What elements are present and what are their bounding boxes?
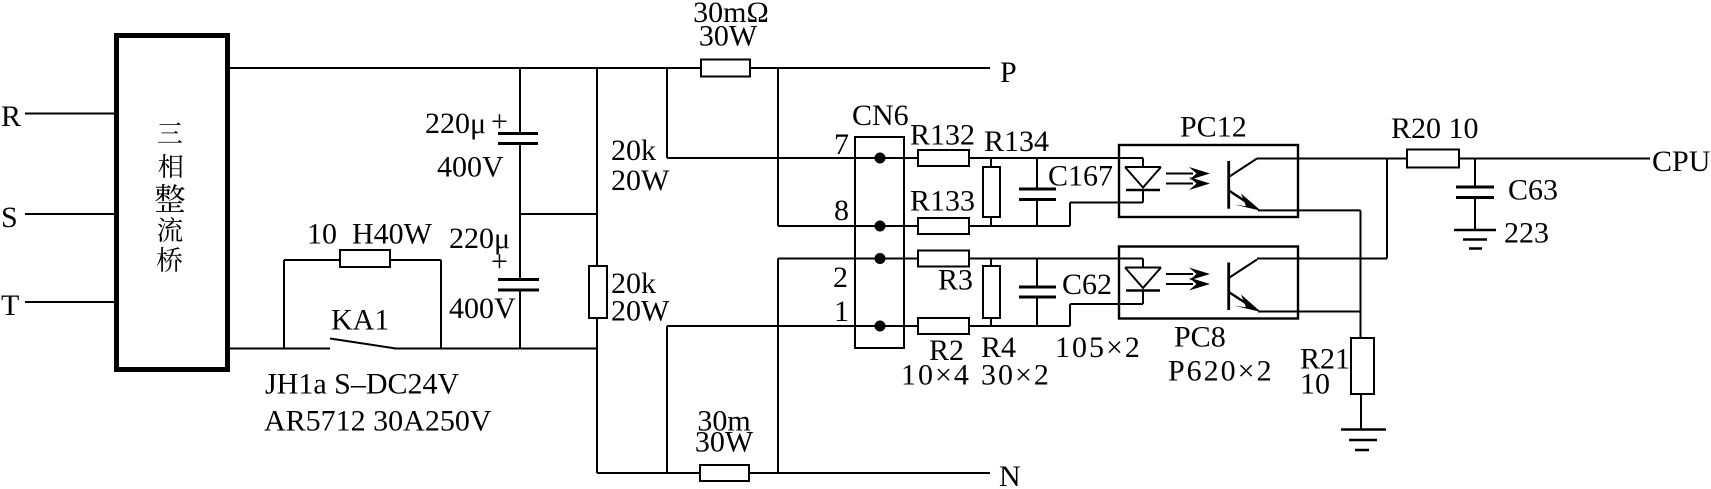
- svg-text:CN6: CN6: [852, 99, 909, 132]
- svg-text:P620×2: P620×2: [1168, 355, 1274, 388]
- svg-text:R3: R3: [938, 264, 973, 297]
- svg-text:8: 8: [834, 194, 849, 227]
- svg-text:R20 10: R20 10: [1391, 112, 1479, 145]
- svg-text:CPU: CPU: [1652, 145, 1711, 178]
- svg-text:C167: C167: [1048, 160, 1113, 193]
- svg-text:10: 10: [1300, 368, 1330, 401]
- svg-text:+: +: [491, 245, 508, 278]
- svg-text:P: P: [1000, 56, 1017, 89]
- svg-text:H40W: H40W: [352, 218, 433, 251]
- svg-text:+: +: [491, 105, 508, 138]
- svg-text:C63: C63: [1508, 174, 1558, 207]
- svg-text:S: S: [1, 201, 18, 234]
- svg-text:JH1a S–DC24V: JH1a S–DC24V: [265, 368, 460, 401]
- svg-text:R: R: [1, 100, 21, 133]
- svg-text:30W: 30W: [699, 20, 758, 53]
- svg-text:AR5712 30A250V: AR5712 30A250V: [264, 405, 492, 438]
- svg-text:R132: R132: [910, 119, 975, 152]
- svg-text:1: 1: [834, 295, 849, 328]
- svg-text:400V: 400V: [437, 151, 504, 184]
- svg-text:400V: 400V: [449, 292, 516, 325]
- svg-text:PC8: PC8: [1174, 321, 1226, 354]
- svg-text:20k: 20k: [611, 134, 656, 167]
- svg-text:30W: 30W: [695, 426, 754, 459]
- svg-text:105×2: 105×2: [1055, 331, 1142, 364]
- svg-text:R134: R134: [984, 125, 1049, 158]
- svg-text:10: 10: [307, 218, 337, 251]
- svg-text:N: N: [999, 460, 1021, 489]
- svg-text:223: 223: [1504, 217, 1549, 250]
- svg-text:220μ: 220μ: [425, 107, 486, 140]
- svg-text:20W: 20W: [611, 164, 670, 197]
- svg-text:T: T: [1, 289, 19, 322]
- svg-text:10×4: 10×4: [901, 359, 971, 392]
- svg-text:PC12: PC12: [1180, 111, 1247, 144]
- svg-text:30×2: 30×2: [981, 359, 1051, 392]
- svg-text:R133: R133: [910, 185, 975, 218]
- svg-text:2: 2: [833, 261, 848, 294]
- svg-text:C62: C62: [1062, 268, 1112, 301]
- svg-text:20W: 20W: [611, 295, 670, 328]
- svg-text:7: 7: [834, 128, 849, 161]
- svg-text:KA1: KA1: [331, 304, 389, 337]
